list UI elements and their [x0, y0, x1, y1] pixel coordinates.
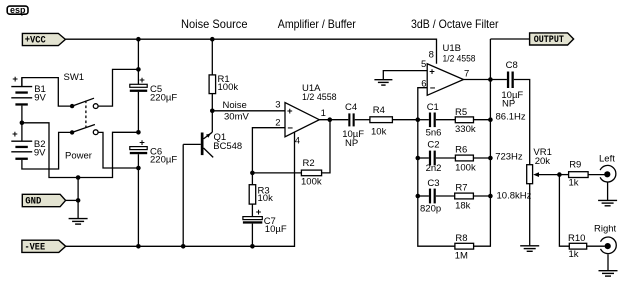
svg-text:1/2 4558: 1/2 4558 [443, 54, 476, 65]
capacitor C5 [130, 39, 178, 132]
node GND junction [76, 175, 81, 203]
svg-text:220µF: 220µF [150, 92, 177, 103]
svg-text:2n2: 2n2 [426, 163, 442, 174]
svg-text:Left: Left [599, 154, 615, 165]
svg-text:GND: GND [25, 197, 41, 208]
svg-text:7: 7 [464, 68, 469, 79]
svg-text:10k: 10k [258, 193, 274, 204]
node -VEE/Q1 base [181, 244, 186, 249]
wire B1+ to switch pole 1 [22, 78, 72, 107]
svg-text:C3: C3 [427, 178, 439, 189]
switch SW1 [64, 72, 99, 162]
svg-text:30mV: 30mV [224, 111, 249, 122]
svg-text:−: − [287, 123, 293, 134]
node C2 row right [488, 156, 493, 161]
potentiometer VR1 [527, 147, 560, 245]
tag GND [22, 194, 65, 207]
tag OUTPUT [530, 33, 574, 46]
heading 3dB / Octave Filter [411, 17, 499, 31]
ground (Left jack) [598, 200, 617, 205]
capacitor C8 [490, 60, 529, 165]
svg-text:1/2 4558: 1/2 4558 [302, 92, 337, 103]
node Noise [210, 100, 249, 123]
svg-text:330k: 330k [455, 124, 476, 135]
node -VEE/C6 [136, 244, 141, 249]
svg-text:Noise: Noise [223, 100, 247, 111]
wire 0V node to GND and C5/C6 midpoint [22, 123, 138, 178]
svg-text:Noise Source: Noise Source [181, 17, 248, 31]
ground (Right jack) [599, 271, 618, 276]
svg-text:R4: R4 [373, 105, 385, 116]
svg-text:C4: C4 [345, 102, 357, 113]
resistor R3 [249, 173, 273, 217]
svg-text:R2: R2 [303, 158, 315, 169]
svg-text:+: + [429, 66, 435, 77]
node U1A output [328, 117, 333, 122]
node C6/-VEE [136, 166, 141, 171]
wire switch pole1 to +VCC node [98, 69, 138, 106]
resistor R8 [455, 233, 474, 262]
tag +VCC [22, 33, 65, 46]
node C2 row left [416, 156, 421, 161]
capacitor C4 [342, 102, 370, 149]
resistor R10 [568, 233, 605, 260]
resistor R2 [252, 120, 330, 188]
wire U1B output [464, 79, 491, 81]
svg-text:5n6: 5n6 [426, 128, 442, 139]
ground (VR1) [520, 246, 539, 252]
label 10.8kHz [497, 191, 532, 202]
svg-text:1: 1 [321, 108, 326, 119]
svg-text:1k: 1k [569, 177, 579, 188]
node C5/C6 midpoint [136, 130, 141, 135]
ESP logo [7, 5, 28, 16]
wire to R10 [559, 175, 569, 247]
transistor Q1 [183, 111, 242, 247]
svg-text:+: + [256, 207, 262, 218]
connector Left jack [599, 154, 616, 201]
capacitor C7 [243, 207, 287, 247]
svg-text:−: − [430, 83, 436, 94]
wire filter right rail [473, 39, 490, 246]
svg-text:220µF: 220µF [150, 155, 177, 166]
svg-text:18k: 18k [455, 200, 471, 211]
svg-text:5: 5 [421, 59, 426, 70]
node C3 row right [488, 194, 493, 199]
svg-text:R8: R8 [455, 233, 467, 244]
svg-text:+: + [12, 129, 18, 140]
svg-text:+VCC: +VCC [25, 35, 46, 46]
wire noise node to U1A pin 3 [212, 110, 285, 112]
svg-text:2: 2 [275, 117, 280, 128]
svg-text:Right: Right [594, 224, 617, 235]
svg-text:4: 4 [295, 135, 300, 146]
svg-text:OUTPUT: OUTPUT [534, 35, 564, 46]
svg-text:+: + [287, 106, 293, 117]
wire switch pole2 to -VEE node [98, 132, 138, 168]
wire GND tag to ground [66, 178, 79, 219]
svg-text:NP: NP [345, 138, 358, 149]
svg-text:+: + [139, 137, 145, 148]
node B1/B2 midpoint [20, 121, 25, 126]
svg-text:R6: R6 [455, 145, 467, 156]
svg-text:Power: Power [65, 151, 92, 162]
resistor R7 [455, 183, 491, 212]
svg-text:8: 8 [429, 50, 434, 61]
svg-text:+: + [12, 74, 18, 85]
svg-text:86.1Hz: 86.1Hz [496, 112, 526, 123]
node R2/R3/pin2 [250, 171, 255, 176]
svg-text:R5: R5 [455, 107, 467, 118]
label 86.1Hz [496, 112, 526, 123]
svg-text:SW1: SW1 [64, 72, 85, 83]
svg-text:10k: 10k [371, 127, 387, 138]
heading Noise Source [181, 17, 248, 31]
battery B1 [11, 74, 46, 123]
op-amp U1B [421, 43, 476, 95]
wire filter left rail [418, 120, 455, 247]
svg-text:-VEE: -VEE [25, 243, 46, 254]
resistor R4 [370, 105, 418, 138]
svg-text:NP: NP [502, 98, 515, 109]
wire B2- to switch pole 2 [22, 132, 72, 169]
svg-text:820p: 820p [420, 204, 441, 215]
ground (main 0V) [69, 219, 88, 225]
svg-text:723Hz: 723Hz [495, 152, 523, 163]
node wiper/R9/R10 [557, 172, 562, 177]
svg-text:Amplifier / Buffer: Amplifier / Buffer [278, 17, 356, 31]
svg-text:100k: 100k [455, 163, 476, 174]
svg-text:10µF: 10µF [265, 224, 287, 235]
svg-text:1k: 1k [569, 249, 579, 260]
svg-text:R10: R10 [568, 233, 585, 244]
capacitor C6 [130, 137, 178, 246]
svg-text:R9: R9 [569, 160, 581, 171]
svg-text:BC548: BC548 [213, 141, 242, 152]
node C3 row left [416, 194, 421, 199]
battery B2 [11, 123, 46, 160]
ground (U1B pin 5) [374, 80, 392, 85]
node output/R5 row [488, 77, 493, 122]
svg-text:3: 3 [275, 100, 280, 111]
svg-text:R7: R7 [455, 183, 467, 194]
svg-text:9V: 9V [34, 92, 46, 103]
capacitor C3 [418, 178, 455, 215]
node +VCC/C5 [136, 37, 141, 72]
wire U1A output [319, 119, 348, 121]
connector Right jack [594, 224, 617, 271]
node +VCC/R1 [210, 37, 215, 42]
resistor R5 [455, 107, 490, 135]
op-amp U1A [275, 83, 336, 146]
wire output to tag [490, 38, 529, 40]
wire U1A pin 2 [252, 128, 285, 173]
wire U1B pin 6 [418, 88, 427, 120]
resistor R1 [209, 39, 238, 111]
svg-text:100k: 100k [218, 82, 239, 93]
resistor R9 [559, 160, 604, 189]
svg-text:C1: C1 [427, 102, 439, 113]
svg-text:1M: 1M [455, 251, 468, 262]
svg-text:C2: C2 [427, 139, 439, 150]
svg-text:+: + [139, 75, 145, 86]
resistor R6 [455, 145, 490, 174]
capacitor C2 [418, 139, 456, 174]
label 723Hz [495, 152, 523, 163]
node -VEE/C7 [250, 244, 255, 249]
node R4/C1/pin6 [416, 117, 421, 122]
wire +VCC rail [65, 39, 436, 64]
svg-text:100k: 100k [301, 176, 322, 187]
wire -VEE rail [66, 132, 295, 247]
wire U1B pin 5 to ground [383, 71, 427, 80]
svg-text:9V: 9V [34, 147, 46, 158]
svg-text:3dB / Octave Filter: 3dB / Octave Filter [411, 17, 499, 31]
tag -VEE [22, 240, 66, 253]
svg-text:10.8kHz: 10.8kHz [497, 191, 532, 202]
svg-text:esp: esp [10, 5, 26, 15]
heading Amplifier / Buffer [278, 17, 356, 31]
svg-text:20k: 20k [535, 156, 551, 167]
svg-text:C8: C8 [506, 60, 518, 71]
capacitor C1 [418, 102, 456, 139]
